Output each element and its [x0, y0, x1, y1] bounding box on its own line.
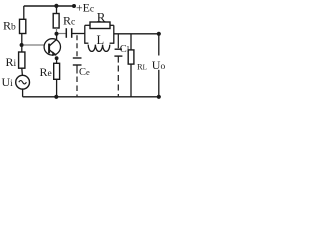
wire base	[23, 44, 44, 46]
wire tank to output node	[114, 33, 157, 35]
wire Ri bottom lead	[21, 68, 24, 75]
resistor R	[85, 24, 90, 26]
capacitor Cl bottom lead	[117, 56, 119, 63]
node ground junction	[54, 95, 58, 99]
wire RL bottom lead	[130, 64, 132, 97]
source Ui	[16, 75, 30, 89]
resistor Rc	[53, 14, 59, 29]
transistor base bar	[48, 44, 50, 54]
svg-text:L: L	[97, 33, 105, 47]
wire Rc bottom lead	[56, 28, 58, 32]
transistor emitter arrowhead	[52, 51, 57, 56]
wire Rc top lead	[56, 6, 58, 14]
wire emitter to Re	[56, 57, 58, 64]
wire collector to C1	[59, 33, 66, 35]
resistor Ri	[19, 52, 25, 68]
resistor RL	[128, 50, 134, 64]
capacitor Ce bottom lead	[76, 65, 78, 74]
svg-text:R: R	[97, 10, 106, 25]
wire Rb top lead	[23, 6, 25, 19]
wire Rb bottom lead	[21, 34, 23, 44]
svg-text:Ce: Ce	[79, 67, 90, 78]
capacitor Ce	[73, 58, 82, 65]
resistor Rb	[20, 19, 26, 33]
capacitor Cl top lead	[117, 34, 119, 48]
node output top	[157, 32, 161, 36]
svg-text:RL: RL	[137, 61, 147, 71]
inductor L	[85, 42, 89, 44]
tank left side wire	[84, 25, 86, 44]
node collector supply junction	[54, 4, 58, 8]
wire top supply rail	[24, 5, 74, 7]
terminal +Ec dot	[72, 4, 76, 8]
wire Cl dashed to ground	[117, 66, 119, 97]
wire Ce dashed to ground	[76, 77, 78, 97]
wire Ui bottom lead	[22, 89, 24, 97]
transistor emitter lead	[49, 50, 55, 56]
node collector junction	[55, 32, 59, 36]
wire Ri top lead	[21, 47, 23, 52]
capacitor C1	[66, 28, 71, 38]
label Uo	[151, 56, 166, 70]
wire Re bottom lead	[56, 79, 58, 95]
tank right side wire	[113, 25, 115, 44]
wire RL top lead	[130, 34, 132, 50]
wire C1 to tank	[72, 33, 85, 35]
transistor V circle	[44, 39, 60, 55]
transistor collector lead	[49, 36, 56, 46]
svg-text:Cl: Cl	[120, 44, 130, 55]
capacitor Cl	[114, 49, 122, 56]
wire output vertical	[158, 34, 160, 97]
node output bottom	[157, 95, 161, 99]
resistor Re	[54, 63, 60, 79]
node base junction	[20, 43, 24, 47]
node emitter junction	[55, 56, 59, 60]
capacitor Ce dashed top lead	[76, 35, 78, 57]
wire bottom ground rail	[23, 96, 159, 98]
